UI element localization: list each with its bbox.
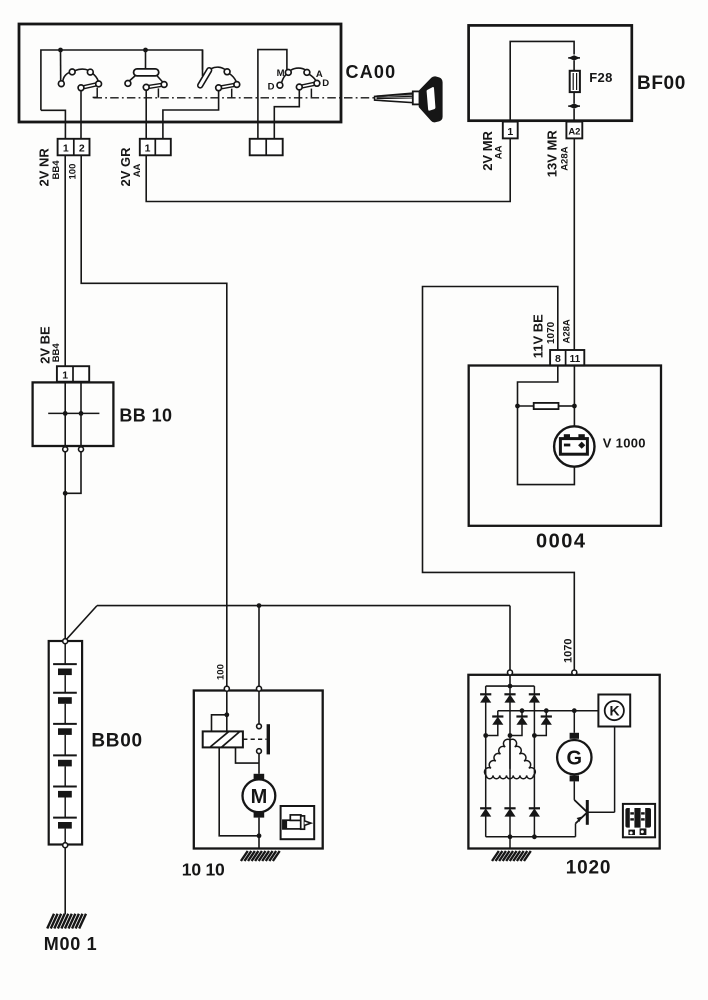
starter input terminals	[224, 686, 229, 691]
alternator unit 1020 box	[468, 675, 659, 849]
junction below BB10	[63, 491, 68, 496]
regulator K box	[598, 695, 630, 727]
switch 3 wire to connector	[163, 91, 219, 140]
svg-text:100: 100	[68, 164, 79, 180]
BF00 pin 1	[503, 122, 518, 139]
wire BB4 from pin 1 to BB10	[64, 155, 66, 366]
svg-text:V 1000: V 1000	[603, 435, 646, 450]
svg-text:M00 1: M00 1	[44, 934, 98, 954]
contactor wire from terminal	[258, 691, 260, 724]
svg-text:D: D	[268, 82, 275, 93]
switch 4 (M-A-D-D selector)	[258, 50, 287, 140]
svg-text:BB4: BB4	[51, 160, 62, 180]
svg-text:1020: 1020	[566, 857, 611, 878]
brushes box	[623, 804, 655, 837]
junction right of resistor	[572, 404, 577, 409]
wire AA from CA00 to fuse box	[146, 139, 510, 202]
0004 wire from pin 8	[518, 366, 558, 406]
svg-text:2V NR: 2V NR	[37, 148, 52, 187]
alternator ground symbol	[492, 851, 499, 861]
junction node switch 1 feed	[58, 48, 63, 53]
connection diamond lower	[568, 103, 580, 108]
svg-text:AA: AA	[494, 145, 505, 159]
solenoid actuation dashed link	[243, 738, 266, 740]
svg-text:2V GR: 2V GR	[118, 147, 133, 187]
negative bus	[486, 836, 576, 838]
output transistor	[574, 800, 587, 812]
svg-text:A2: A2	[568, 126, 580, 137]
switch 3 (starter contact)	[202, 50, 204, 76]
battery BB00 top terminal	[63, 639, 68, 644]
svg-text:1070: 1070	[563, 639, 575, 663]
switch 1 stop mark	[96, 88, 98, 98]
negative diodes	[480, 807, 491, 809]
ground M001	[47, 914, 54, 929]
svg-text:BF00: BF00	[637, 73, 686, 94]
svg-text:13V MR: 13V MR	[545, 130, 560, 178]
starter ground symbol	[241, 851, 248, 861]
contact to motor wire	[258, 754, 260, 774]
svg-text:G: G	[567, 748, 583, 770]
svg-text:11: 11	[570, 354, 581, 365]
stator winding (delta)	[484, 739, 510, 775]
excitation diodes	[497, 711, 499, 717]
rotor feed wire	[573, 711, 575, 733]
contactor bar	[267, 724, 270, 754]
svg-text:BB00: BB00	[91, 730, 142, 751]
BB10 internal wires	[64, 382, 66, 447]
BB10 connector	[57, 366, 89, 382]
positive diodes	[485, 686, 487, 694]
excitation diodes bus D+	[498, 710, 599, 712]
svg-text:AA: AA	[132, 163, 143, 177]
fuse box BF00	[469, 25, 632, 120]
svg-text:8: 8	[555, 353, 561, 365]
svg-text:1: 1	[63, 143, 69, 155]
B+ wire and top bus	[509, 675, 511, 686]
svg-text:D: D	[322, 78, 329, 89]
switch 1 wire to pin 2	[80, 91, 82, 140]
svg-text:F28: F28	[589, 70, 613, 85]
starter motor M	[254, 774, 265, 780]
solenoid coil (relay)	[203, 731, 243, 747]
BB10 output terminals	[63, 447, 68, 452]
svg-text:0004: 0004	[536, 531, 587, 553]
battery BB00 bottom terminal	[63, 843, 68, 848]
switch 3 stop mark	[231, 89, 233, 98]
battery BB00 box	[49, 641, 82, 845]
BF00 internal wire	[510, 41, 574, 120]
rotor G	[570, 733, 579, 739]
ignition key symbol	[375, 93, 413, 103]
svg-text:M: M	[251, 786, 268, 808]
switch 4 stop mark	[310, 89, 312, 98]
starter drive icon box	[281, 806, 315, 839]
contactor contacts	[257, 724, 262, 729]
starter unit 1010 box	[194, 691, 323, 849]
junction at motor ground	[257, 833, 262, 838]
svg-text:1: 1	[62, 369, 68, 381]
svg-text:M: M	[277, 68, 285, 79]
alternator input terminals	[508, 670, 513, 675]
0004 return loop wire	[518, 406, 575, 485]
instrument panel connector pins 8 and 11	[550, 350, 584, 366]
svg-text:A28A: A28A	[562, 319, 573, 343]
svg-text:10 10: 10 10	[182, 860, 225, 880]
rotor to transistor wire	[573, 781, 575, 800]
svg-text:A28A: A28A	[559, 146, 570, 170]
resistor (shunt)	[518, 405, 534, 407]
connector 2 of CA00	[140, 139, 171, 156]
voltmeter V1000 (battery gauge)	[554, 426, 594, 466]
fuse F28	[570, 71, 580, 92]
solenoid return wire	[219, 747, 259, 835]
starter drive icon	[283, 820, 301, 829]
alternator ground wire	[509, 837, 511, 849]
switch 1 (accessory contact)	[60, 50, 62, 81]
motor ground wire	[258, 818, 260, 849]
BB10 output wires merge	[64, 452, 66, 639]
instrument panel box 0004	[469, 366, 661, 526]
junction node switch 2 feed	[143, 48, 148, 53]
connection diamond upper	[568, 55, 580, 60]
wire A28A from fuse to instrument panel	[573, 138, 575, 350]
BF00 pin A2	[566, 122, 582, 139]
solenoid loop wire	[212, 715, 227, 732]
junction left of resistor	[515, 404, 520, 409]
junction to starter feed	[257, 603, 262, 608]
svg-text:CA00: CA00	[346, 62, 397, 82]
battery BB00 cells	[64, 644, 66, 664]
svg-text:K: K	[609, 703, 619, 719]
brushes icon	[625, 808, 651, 828]
battery ground wire	[64, 848, 66, 914]
svg-text:1070: 1070	[546, 321, 557, 344]
connector 3 of CA00	[250, 139, 283, 156]
CA00 wire to pin 1	[41, 110, 66, 139]
BB10 junction dots	[63, 411, 68, 416]
svg-text:BB 10: BB 10	[119, 405, 172, 425]
switch 4 wire to connector	[274, 90, 299, 139]
svg-text:1: 1	[507, 126, 513, 138]
wire 100 from pin 2 to starter	[81, 155, 227, 686]
ignition switch unit CA00 box	[19, 24, 341, 122]
wire 1070 from instrument panel to alternator	[423, 287, 575, 671]
solenoid to contact lower wire	[236, 747, 259, 763]
battery positive distribution wire	[66, 606, 97, 640]
switch 2 (ignition contact)	[145, 50, 147, 69]
svg-text:11V BE: 11V BE	[530, 314, 545, 358]
starter feed wire	[258, 606, 260, 687]
svg-text:1: 1	[145, 143, 151, 155]
switch 2 stop mark	[157, 88, 159, 97]
switch 2 wire to connector pin 1	[145, 90, 147, 139]
mechanical axis dash-dot line	[94, 97, 375, 99]
svg-text:100: 100	[215, 664, 226, 680]
0004 wire from pin 11 to voltmeter	[573, 366, 575, 427]
junction at solenoid	[224, 712, 229, 717]
junction unit BB10 box	[33, 382, 114, 446]
svg-text:2: 2	[79, 143, 85, 155]
CA00 internal supply wire	[41, 50, 203, 110]
starter solenoid feed	[226, 691, 228, 715]
svg-text:BB4: BB4	[51, 343, 62, 363]
connector 1 of CA00	[58, 139, 90, 156]
